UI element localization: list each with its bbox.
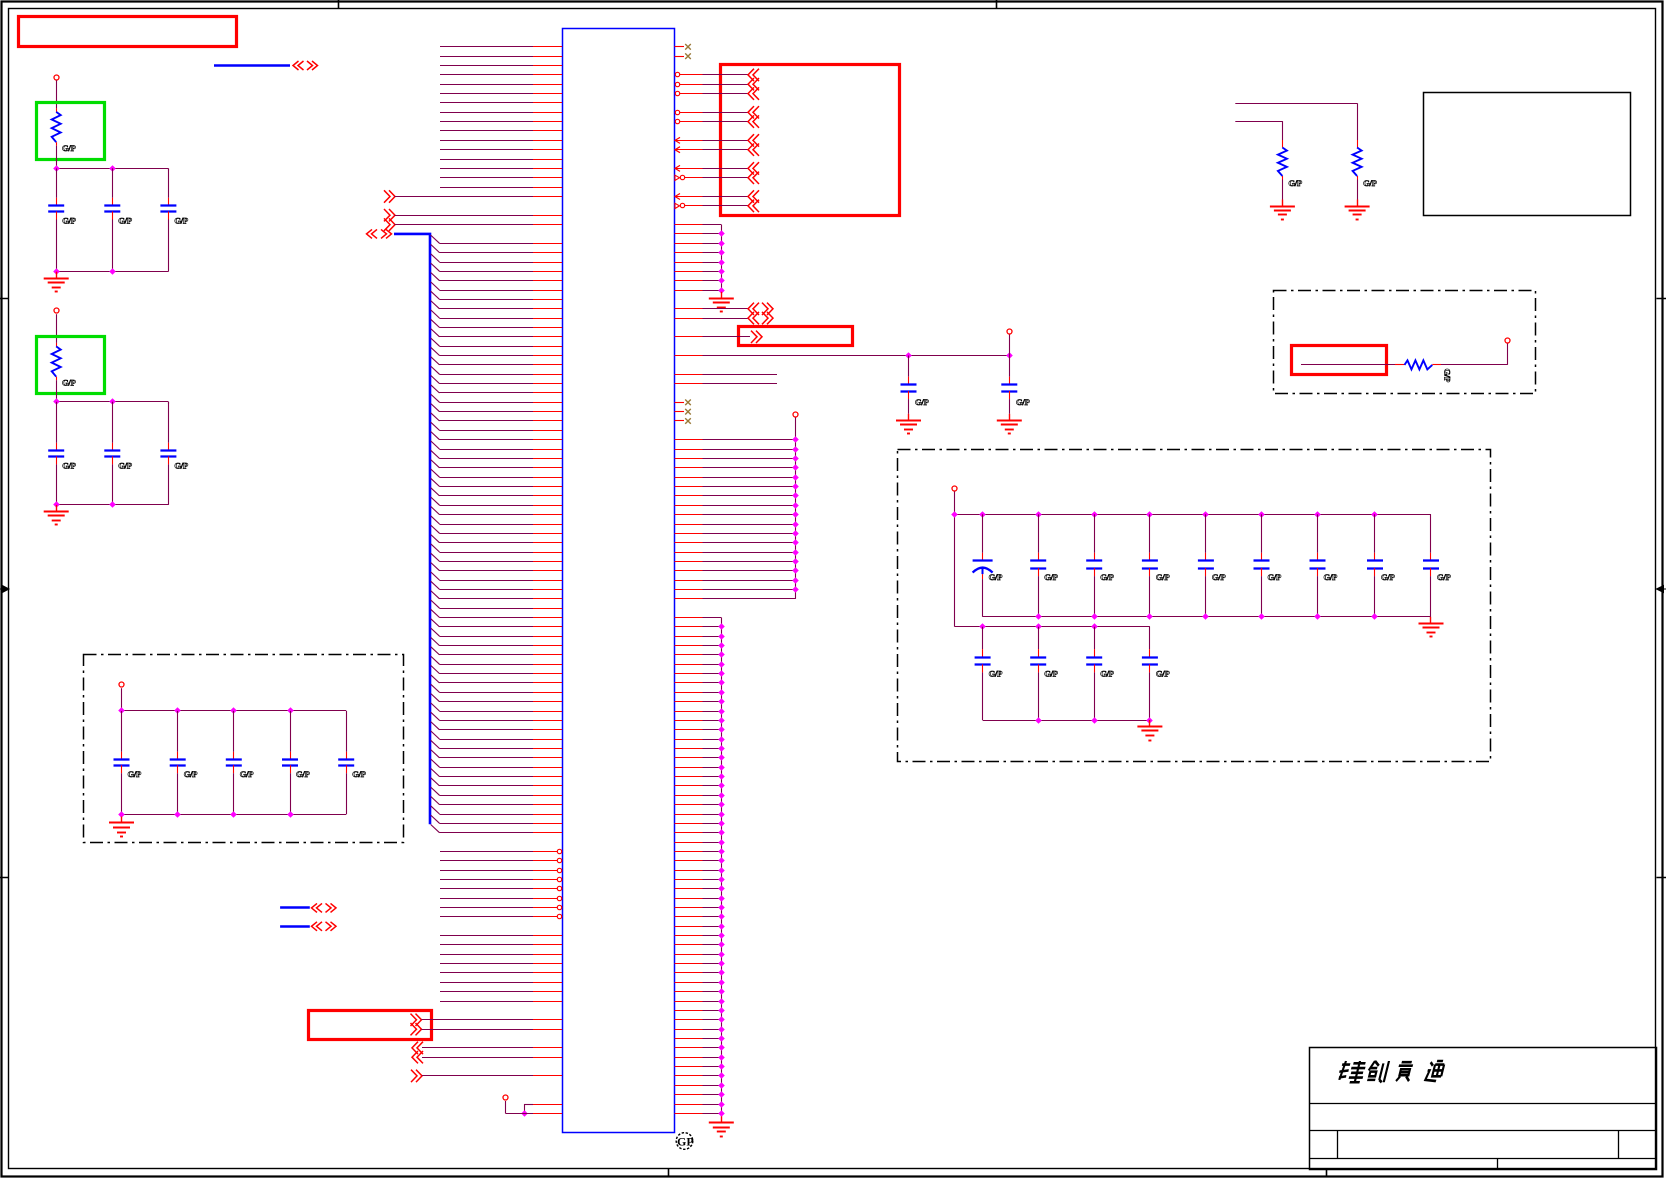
pin U1 — [675, 748, 703, 750]
junction — [287, 707, 294, 714]
wire — [703, 870, 722, 872]
wire — [703, 449, 796, 451]
pin U1 left row 15 — [533, 177, 562, 179]
pin U1 — [533, 767, 562, 769]
svg-text:G/P: G/P — [352, 769, 365, 779]
off-page connector — [748, 115, 754, 127]
wire — [440, 954, 533, 956]
capacitor — [1149, 514, 1151, 553]
wire — [703, 561, 796, 563]
bus entry — [431, 694, 440, 702]
wire — [440, 879, 533, 881]
pin U1 — [533, 308, 562, 310]
bus entry — [431, 460, 440, 468]
svg-text:G/P: G/P — [1016, 397, 1029, 407]
junction — [979, 511, 986, 518]
wire — [440, 243, 534, 245]
bus entry — [431, 535, 440, 543]
junction — [792, 492, 799, 499]
wire — [440, 860, 533, 862]
pin U1 left row 11 — [533, 140, 562, 142]
junction — [792, 455, 799, 462]
wire — [440, 795, 534, 797]
title block line — [1309, 1103, 1656, 1105]
wire — [703, 916, 722, 918]
pin U1 — [533, 383, 562, 385]
annotation box (red) — [739, 327, 853, 346]
wire — [440, 767, 534, 769]
wire — [703, 776, 722, 778]
pin U1 — [533, 411, 562, 413]
junction — [1035, 613, 1042, 620]
pin U1 — [675, 1001, 703, 1003]
off-page connector — [751, 331, 757, 343]
wire — [703, 720, 722, 722]
junction — [118, 811, 125, 818]
pin U1 — [533, 954, 562, 956]
wire — [440, 1001, 533, 1003]
bus entry — [431, 768, 440, 776]
junction — [792, 464, 799, 471]
pin U1 — [533, 636, 562, 638]
capacitor — [290, 711, 292, 752]
wire — [440, 486, 534, 488]
wire — [440, 402, 534, 404]
svg-text:G/P: G/P — [62, 216, 75, 226]
wire — [703, 439, 796, 441]
wire — [395, 215, 534, 217]
junction — [718, 773, 725, 780]
pin U1 — [533, 729, 562, 731]
pin U1 — [675, 336, 703, 338]
junction — [1091, 717, 1098, 724]
pin U1 — [533, 626, 562, 628]
pin U1 left row 2 — [533, 56, 562, 58]
pin U1 — [675, 898, 703, 900]
wire — [440, 944, 533, 946]
pin U1 — [533, 944, 562, 946]
junction — [718, 764, 725, 771]
bus entry — [431, 675, 440, 683]
pin U1 left row 10 — [533, 130, 562, 132]
pin U1 — [675, 252, 703, 254]
wire — [703, 991, 722, 993]
wire — [703, 589, 796, 591]
bus entry — [431, 591, 440, 599]
wire — [703, 580, 796, 582]
wire — [440, 664, 534, 666]
pin U1 — [675, 271, 703, 273]
pin U1 — [675, 514, 703, 516]
wire — [1282, 121, 1284, 140]
junction — [718, 848, 725, 855]
wire — [703, 252, 722, 254]
wire — [440, 580, 534, 582]
wire — [703, 823, 722, 825]
pin U1 — [675, 1104, 703, 1106]
pin U1 — [533, 458, 562, 460]
ground — [56, 272, 58, 279]
wire rail — [56, 504, 168, 506]
junction — [718, 642, 725, 649]
wire — [440, 168, 533, 170]
junction — [792, 577, 799, 584]
pin U1 — [675, 701, 703, 703]
pin U1 — [675, 383, 703, 385]
pin U1 — [675, 598, 703, 600]
wire — [440, 46, 533, 48]
wire — [440, 729, 534, 731]
junction — [718, 885, 725, 892]
junction — [718, 811, 725, 818]
capacitor — [1149, 627, 1151, 649]
pin U1 — [675, 458, 703, 460]
junction — [718, 913, 725, 920]
wire — [440, 654, 534, 656]
pin U1 — [533, 280, 562, 282]
bus entry — [431, 581, 440, 589]
bus stub — [280, 925, 310, 928]
wire — [440, 935, 533, 937]
bus entry — [431, 806, 440, 814]
wire — [703, 692, 722, 694]
wire — [703, 149, 749, 151]
resistor R — [1357, 140, 1359, 148]
junction — [718, 670, 725, 677]
wire — [703, 374, 778, 376]
junction — [718, 754, 725, 761]
pin U1 — [533, 505, 562, 507]
section box (dash-dot) — [898, 450, 1491, 762]
wire — [703, 93, 749, 95]
wire — [440, 711, 534, 713]
wire — [1009, 335, 1011, 356]
pin U1 — [533, 524, 562, 526]
wire — [703, 739, 722, 741]
pin U1 — [533, 196, 562, 198]
pin U1 — [675, 776, 703, 778]
pin U1 (inverted) — [675, 110, 679, 114]
wire — [440, 149, 533, 151]
pin U1 — [533, 224, 562, 226]
wire — [440, 617, 534, 619]
wire — [703, 972, 722, 974]
wire — [703, 645, 722, 647]
junction — [718, 726, 725, 733]
pin U1 — [675, 729, 703, 731]
pin U1 — [675, 1038, 703, 1040]
wire rail — [721, 618, 723, 1118]
ground — [721, 1116, 723, 1123]
resistor R — [56, 108, 58, 112]
junction — [1258, 511, 1265, 518]
wire — [703, 888, 722, 890]
wire — [703, 626, 722, 628]
pin U1 — [675, 1010, 703, 1012]
svg-text:G/P: G/P — [62, 378, 75, 388]
wire — [703, 524, 796, 526]
junction — [905, 352, 912, 359]
wire — [440, 477, 534, 479]
pin U1 left row 7 — [533, 102, 562, 104]
pin U1 — [675, 542, 703, 544]
capacitor — [1317, 514, 1319, 553]
pin U1 — [533, 598, 562, 600]
pin U1 (inverted) — [533, 870, 557, 872]
wire — [440, 467, 534, 469]
pin U1 (clock) — [675, 175, 680, 180]
junction — [718, 1072, 725, 1079]
wire — [703, 542, 796, 544]
pin U1 — [533, 327, 562, 329]
wire — [440, 832, 534, 834]
wire — [703, 486, 796, 488]
pin U1 — [675, 495, 703, 497]
pin U1 left row 13 — [533, 159, 562, 161]
pin U1 — [675, 1094, 703, 1096]
wire — [422, 1057, 533, 1059]
junction — [53, 398, 60, 405]
pin U1 — [675, 720, 703, 722]
svg-text:G/P: G/P — [989, 572, 1002, 582]
wire — [440, 420, 534, 422]
pin U1 (inverted) — [533, 898, 557, 900]
capacitor — [1205, 514, 1207, 553]
bus entry — [431, 665, 440, 673]
wire — [440, 121, 533, 123]
wire — [440, 814, 534, 816]
wire — [440, 898, 533, 900]
bus entry — [431, 310, 440, 318]
junction — [792, 530, 799, 537]
junction — [718, 923, 725, 930]
pin U1 left row 9 — [533, 121, 562, 123]
terminal — [1505, 338, 1510, 343]
annotation box (red) — [721, 65, 900, 216]
wire — [703, 944, 722, 946]
junction — [109, 165, 116, 172]
resistor R — [56, 343, 58, 347]
pin U1 — [533, 963, 562, 965]
wire — [440, 355, 534, 357]
wire — [703, 935, 722, 937]
pin U1 — [675, 944, 703, 946]
svg-text:G/P: G/P — [1044, 669, 1057, 679]
wire — [703, 1010, 722, 1012]
pin U1 — [533, 701, 562, 703]
wire — [440, 336, 534, 338]
bus entry — [431, 413, 440, 421]
wire — [703, 842, 722, 844]
pin U1 (nc) — [675, 402, 685, 404]
junction — [1146, 717, 1153, 724]
pin U1 — [675, 785, 703, 787]
junction — [1035, 511, 1042, 518]
pin U1 — [533, 776, 562, 778]
wire — [395, 224, 534, 226]
wire — [703, 280, 722, 282]
wire rail — [56, 271, 168, 273]
pin U1 — [675, 561, 703, 563]
capacitor — [56, 402, 58, 443]
wire — [703, 140, 749, 142]
pin U1 — [533, 795, 562, 797]
wire — [56, 146, 58, 169]
wire — [440, 271, 534, 273]
bus entry — [431, 572, 440, 580]
ground — [1149, 720, 1151, 727]
pin U1 — [675, 879, 703, 881]
pin U1 — [675, 1113, 703, 1115]
pin U1 (clock) — [675, 203, 680, 208]
svg-text:G/P: G/P — [1044, 572, 1057, 582]
junction — [718, 792, 725, 799]
bus entry — [431, 263, 440, 271]
svg-text:G/P: G/P — [174, 216, 187, 226]
pin U1 — [533, 589, 562, 591]
wire — [703, 748, 722, 750]
junction — [718, 230, 725, 237]
wire — [703, 271, 722, 273]
wire — [703, 814, 722, 816]
section box (dash-dot) — [84, 655, 404, 843]
pin U1 — [675, 823, 703, 825]
svg-text:G/P: G/P — [62, 460, 75, 470]
title block divider — [1618, 1131, 1620, 1159]
zone tick bottom 2 — [1326, 1169, 1328, 1176]
bus entry — [431, 441, 440, 449]
bus entry — [431, 301, 440, 309]
GP symbol — [676, 1133, 693, 1150]
pin U1 — [675, 374, 703, 376]
pin U1 (nc) — [675, 46, 685, 48]
pin U1 — [533, 682, 562, 684]
svg-text:G/P: G/P — [118, 216, 131, 226]
pin U1 — [675, 795, 703, 797]
pin U1 — [533, 420, 562, 422]
off-page connector — [748, 162, 754, 174]
pin U1 — [533, 748, 562, 750]
junction — [718, 249, 725, 256]
bus entry — [431, 478, 440, 486]
wire — [440, 626, 534, 628]
wire — [703, 1029, 722, 1031]
wire — [440, 318, 534, 320]
junction — [174, 707, 181, 714]
pin U1 — [533, 542, 562, 544]
junction — [718, 941, 725, 948]
bus entry — [431, 450, 440, 458]
wire — [440, 374, 534, 376]
pin U1 — [533, 318, 562, 320]
pin U1 — [675, 851, 703, 853]
capacitor — [177, 711, 179, 752]
wire — [440, 636, 534, 638]
junction — [1035, 717, 1042, 724]
junction — [718, 633, 725, 640]
ground — [908, 414, 910, 421]
terminal — [793, 412, 798, 417]
wire — [703, 262, 722, 264]
junction — [718, 801, 725, 808]
wire — [703, 318, 749, 320]
wire — [703, 673, 722, 675]
pin U1 — [533, 336, 562, 338]
zone tick left 1 — [0, 298, 9, 300]
capacitor — [1038, 514, 1040, 553]
bus entry — [431, 516, 440, 524]
off-page connector — [411, 1070, 417, 1082]
wire — [440, 524, 534, 526]
wire — [440, 495, 534, 497]
bus entry — [431, 750, 440, 758]
bus entry — [431, 319, 440, 327]
junction — [718, 240, 725, 247]
pin U1 (nc) — [675, 56, 685, 58]
svg-text:G/P: G/P — [915, 397, 928, 407]
pin U1 — [533, 252, 562, 254]
wire — [440, 701, 534, 703]
pin U1 — [675, 739, 703, 741]
pin U1 — [533, 1029, 562, 1031]
off-page connector pair — [748, 303, 754, 315]
pin U1 — [675, 814, 703, 816]
wire — [440, 851, 533, 853]
wire — [703, 514, 796, 516]
wire — [440, 505, 534, 507]
junction — [53, 501, 60, 508]
off-page connector — [384, 218, 390, 230]
IC U1 body — [563, 29, 675, 1133]
pin U1 — [533, 982, 562, 984]
pin U1 (inverted) — [533, 888, 557, 890]
wire — [440, 411, 534, 413]
capacitor — [1430, 514, 1432, 553]
pin U1 — [675, 524, 703, 526]
capacitor — [121, 711, 123, 752]
zone tick top 1 — [338, 0, 340, 9]
svg-text:G/P: G/P — [1324, 572, 1337, 582]
junction — [718, 708, 725, 715]
off-page connector — [748, 190, 754, 202]
wire — [703, 982, 722, 984]
pin U1 — [675, 1075, 703, 1077]
pin U1 — [533, 346, 562, 348]
off-page connector pair — [293, 61, 299, 70]
junction — [718, 717, 725, 724]
pin U1 — [675, 318, 703, 320]
junction — [1314, 511, 1321, 518]
terminal — [54, 75, 59, 80]
pin U1 — [533, 552, 562, 554]
bus entry — [431, 506, 440, 514]
title block frame — [1310, 1048, 1657, 1170]
wire — [440, 364, 534, 366]
ground — [56, 505, 58, 512]
pin U1 — [675, 1047, 703, 1049]
bus entry — [431, 497, 440, 505]
zone arrow right — [1656, 586, 1666, 593]
svg-text:G/P: G/P — [1443, 369, 1453, 382]
wire — [703, 767, 722, 769]
pin U1 — [533, 477, 562, 479]
junction — [53, 165, 60, 172]
pin U1 — [675, 570, 703, 572]
wire rail — [983, 720, 1150, 722]
pin U1 (input) — [675, 194, 680, 200]
pin U1 — [533, 570, 562, 572]
wire — [703, 243, 722, 245]
